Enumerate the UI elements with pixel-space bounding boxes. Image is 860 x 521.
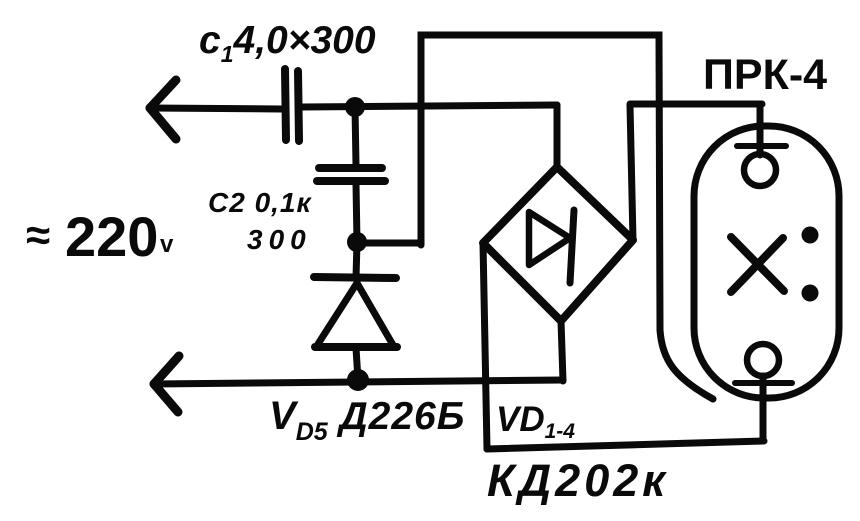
svg-text:VD1-4: VD1-4 [496,400,575,443]
svg-text:v: v [160,231,174,258]
svg-text:ПРК-4: ПРК-4 [703,51,827,99]
svg-text:220: 220 [65,205,158,268]
svg-text:300: 300 [247,224,312,255]
svg-text:C2 0,1к: C2 0,1к [208,187,312,218]
svg-text:КД202к: КД202к [487,455,669,506]
svg-text:≈: ≈ [26,211,50,260]
svg-text:c14,0×300: c14,0×300 [199,19,376,67]
svg-text:VD5 Д226Б: VD5 Д226Б [269,394,465,446]
